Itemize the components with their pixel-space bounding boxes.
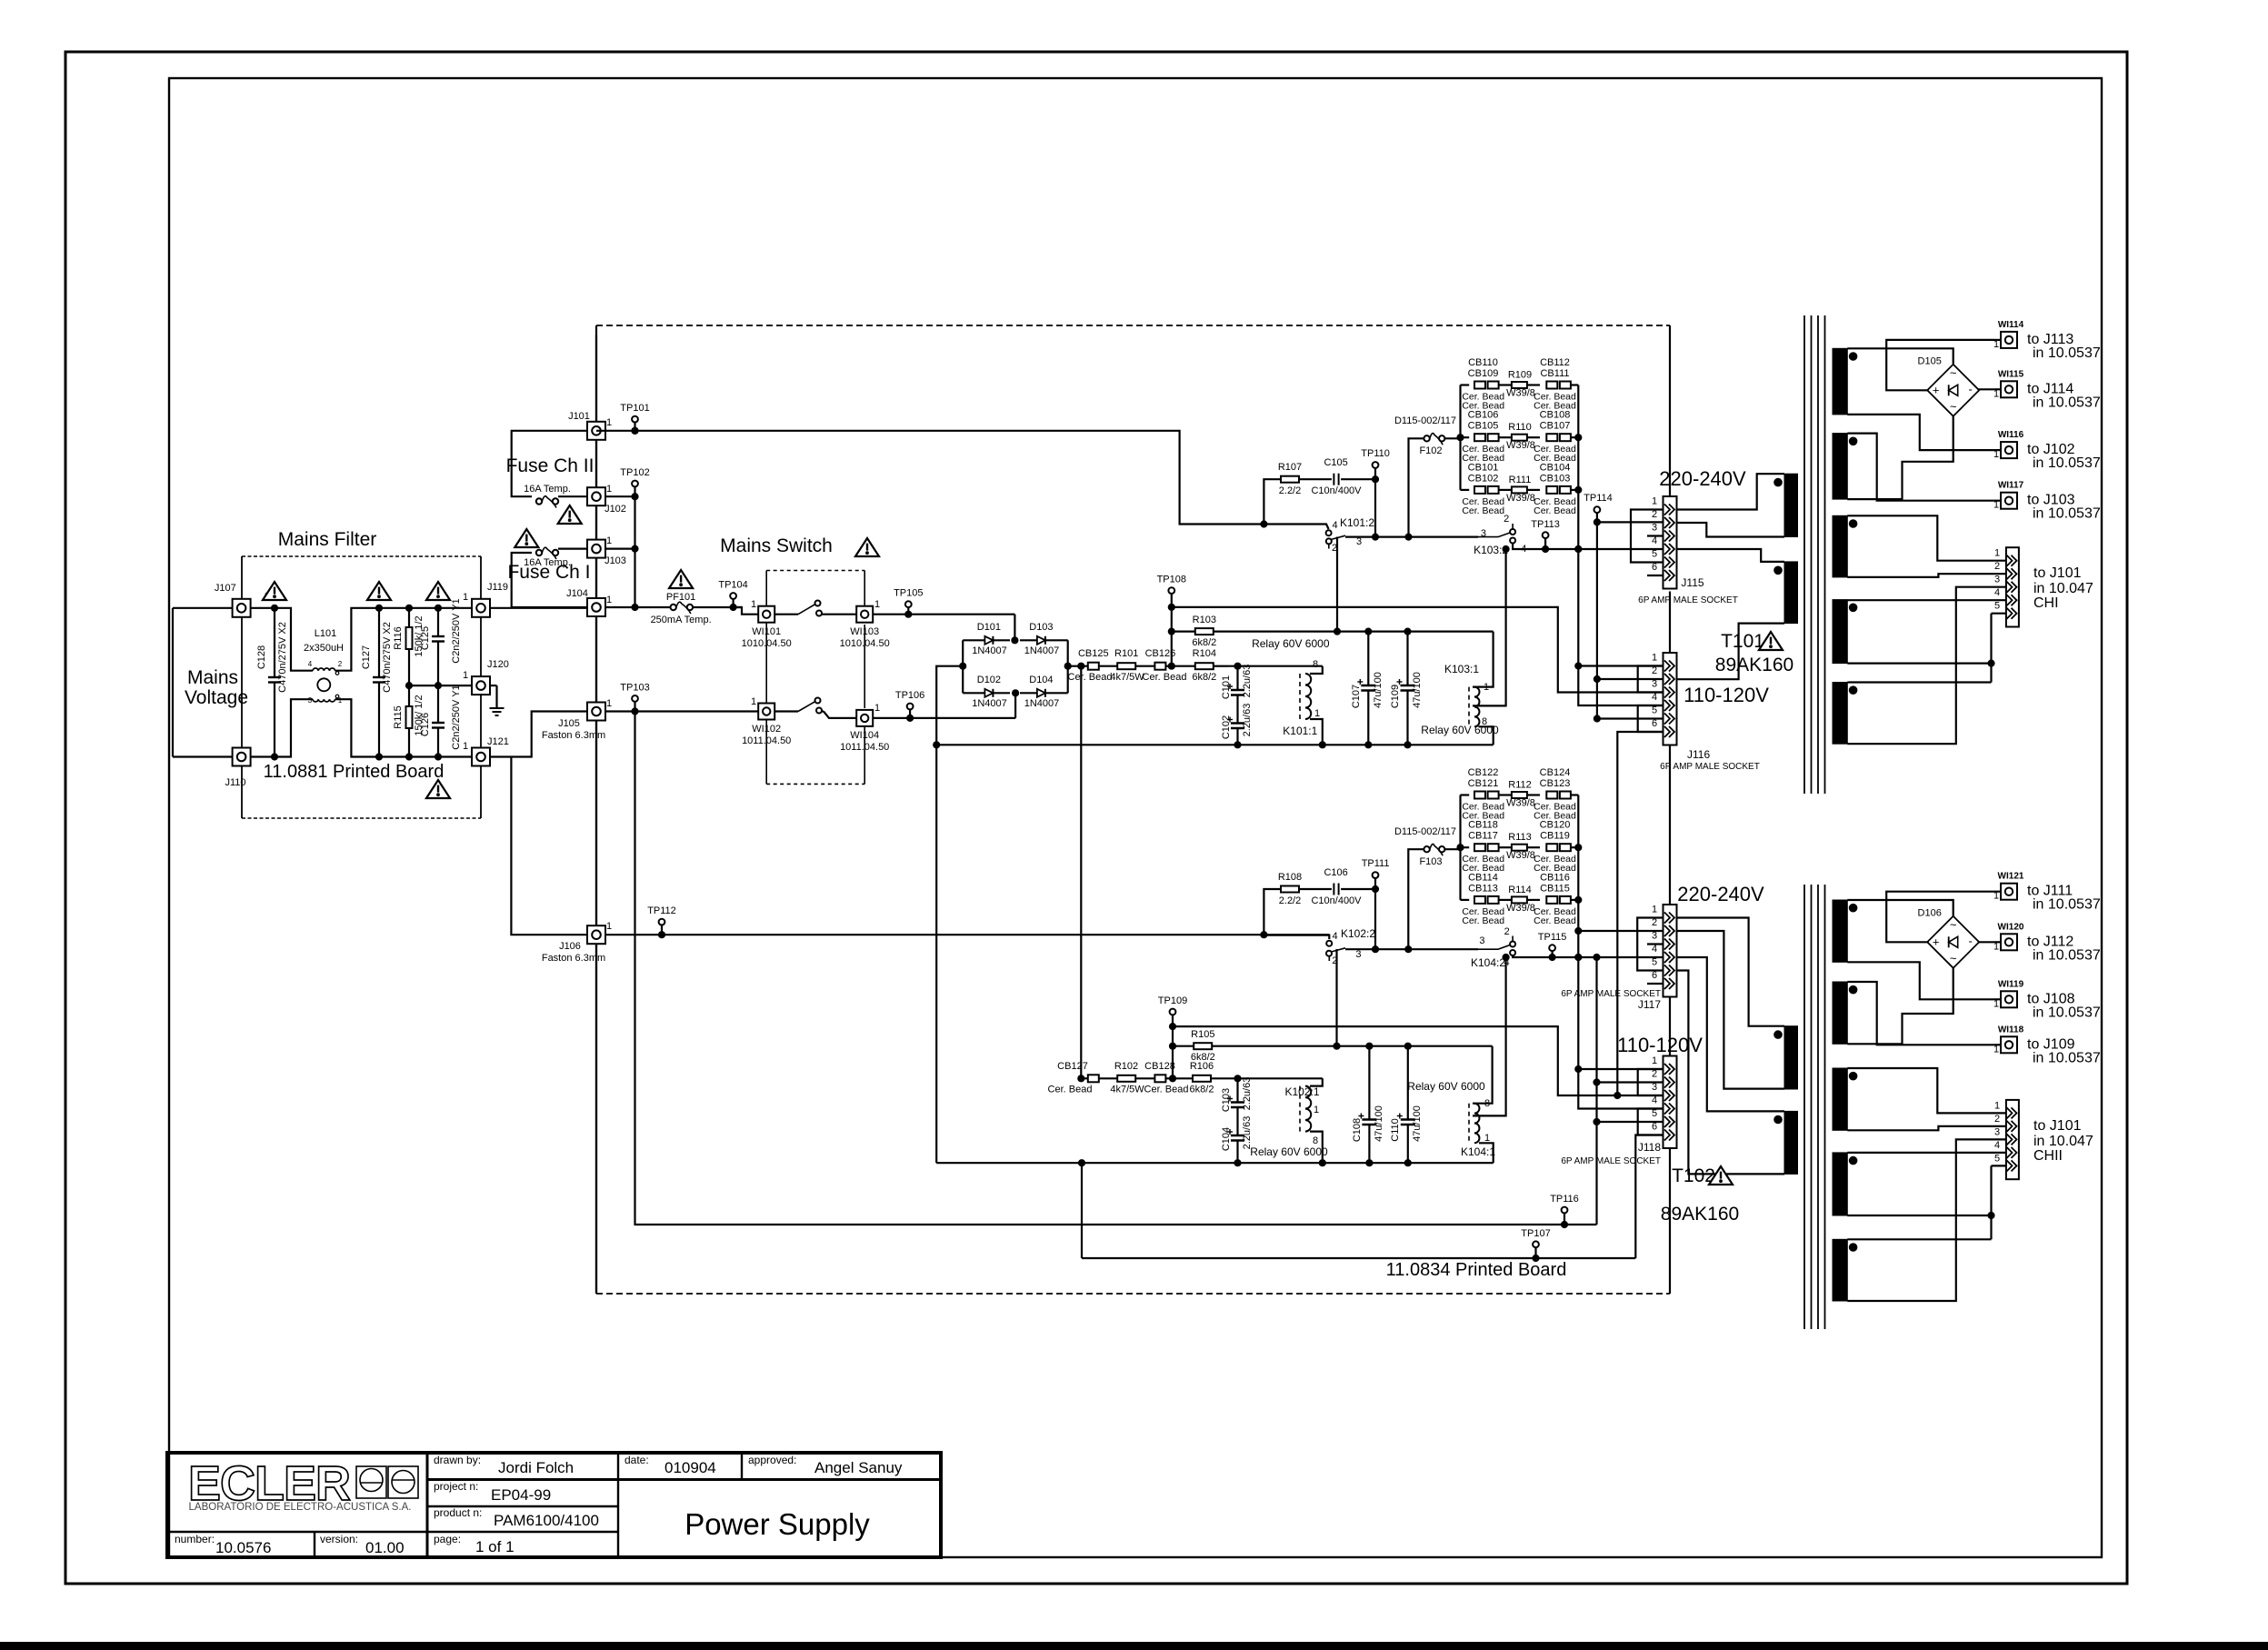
svg-text:11.0834 Printed Board: 11.0834 Printed Board — [1386, 1260, 1567, 1280]
svg-text:WI104: WI104 — [850, 730, 879, 741]
svg-text:W39/8: W39/8 — [1506, 903, 1535, 914]
wire J117 pin6 stub — [1647, 983, 1664, 985]
connector J103 — [587, 540, 605, 558]
svg-text:1: 1 — [1652, 496, 1657, 507]
ferrite bead CB126 — [1154, 663, 1165, 670]
svg-text:CB102: CB102 — [1468, 473, 1499, 484]
svg-text:TP101: TP101 — [620, 403, 649, 414]
warning triangle below C126 — [426, 780, 450, 798]
terminal WI117 — [1994, 500, 2001, 502]
wire S2 top to WI117 — [1847, 434, 1994, 501]
wire channel II input row — [1081, 1077, 1087, 1079]
svg-text:6P AMP MALE SOCKET: 6P AMP MALE SOCKET — [1561, 989, 1661, 999]
svg-text:CB110: CB110 — [1468, 357, 1498, 368]
ferrite beads CB108 CB107 — [1546, 434, 1557, 441]
svg-text:2: 2 — [1504, 926, 1510, 937]
connector J117 6P AMP MALE SOCKET — [1664, 905, 1677, 997]
wire J116 pin6 drop to J118 pin3 — [1617, 732, 1664, 1095]
svg-text:CB125: CB125 — [1078, 648, 1109, 659]
resistor R114 — [1499, 899, 1512, 901]
svg-text:CB118: CB118 — [1468, 820, 1498, 831]
ferrite beads CB102 CB101 — [1461, 489, 1470, 491]
svg-text:Relay 60V 6000: Relay 60V 6000 — [1407, 1080, 1485, 1093]
connector J105 — [587, 703, 605, 721]
wire relay row node X2 — [1228, 1077, 1323, 1079]
svg-text:TP111: TP111 — [1362, 858, 1390, 869]
capacitor C102 — [1231, 722, 1244, 725]
svg-text:F102: F102 — [1419, 445, 1442, 456]
capacitor C107 — [1367, 632, 1369, 685]
wire J101 fuse loop — [512, 431, 587, 496]
svg-text:C105: C105 — [1324, 457, 1347, 468]
wire J116 jumper 1-3 — [1638, 666, 1664, 693]
wire J116 pin1 from CB rail — [1578, 665, 1664, 666]
svg-text:J120: J120 — [487, 659, 509, 670]
connector output CHII — [2006, 1100, 2019, 1179]
svg-text:D106: D106 — [1918, 907, 1942, 918]
svg-text:CB127: CB127 — [1057, 1061, 1088, 1072]
svg-text:Cer. Bead: Cer. Bead — [1462, 915, 1504, 926]
svg-text:R109: R109 — [1508, 370, 1532, 381]
wire D106 minus to WI120 — [1978, 941, 1994, 943]
wire board edge at J117 — [1669, 997, 1671, 1056]
wire D106 AC2 to B2 bottom — [1847, 968, 1953, 1045]
svg-text:110-120V: 110-120V — [1684, 684, 1769, 706]
svg-text:CHI: CHI — [2033, 595, 2059, 611]
svg-text:L101: L101 — [315, 628, 336, 639]
wire bridge left rail — [962, 640, 964, 693]
resistor R104 — [1172, 665, 1194, 667]
svg-text:C109: C109 — [1390, 685, 1401, 708]
svg-text:C470n/275V X2: C470n/275V X2 — [277, 622, 288, 693]
svg-text:CB122: CB122 — [1468, 767, 1499, 778]
resistor R108 — [1281, 886, 1299, 893]
svg-text:89AK160: 89AK160 — [1661, 1204, 1739, 1225]
svg-text:CB105: CB105 — [1468, 421, 1499, 432]
wire WI104 to bridge — [873, 717, 1015, 719]
wire drop to channel II input — [1080, 666, 1082, 1079]
svg-text:6P AMP MALE SOCKET: 6P AMP MALE SOCKET — [1638, 595, 1738, 605]
svg-text:~: ~ — [1950, 399, 1957, 413]
wire J102 junction — [605, 495, 635, 497]
svg-text:4k7/5W: 4k7/5W — [1110, 672, 1144, 683]
wire board edge at J115 — [1669, 325, 1671, 496]
transformer T101 secondary S5 — [1833, 683, 1847, 745]
svg-text:WI101: WI101 — [752, 626, 781, 637]
ferrite beads CB116 CB115 — [1546, 896, 1557, 904]
transformer T102 secondary B5 — [1833, 1239, 1847, 1301]
resistor R110 — [1499, 436, 1512, 438]
wire J118 pin2 — [1597, 1081, 1664, 1083]
svg-text:R111: R111 — [1509, 475, 1532, 485]
wire S4 bottom to CHI pin5 via junction — [1847, 662, 1991, 664]
svg-text:1: 1 — [751, 599, 756, 610]
terminal WI116 — [1994, 449, 2001, 451]
svg-text:2.2u/63: 2.2u/63 — [1242, 1077, 1253, 1111]
svg-text:J107: J107 — [215, 583, 236, 594]
svg-text:CB109: CB109 — [1468, 368, 1499, 379]
relay coil K103:1 — [1468, 687, 1470, 727]
transformer T101 primary 1 bar — [1784, 474, 1798, 536]
svg-text:J105: J105 — [558, 718, 580, 729]
relay contact K102:2 — [1264, 935, 1329, 939]
wire S5 top joins pin5 riser — [1847, 681, 1991, 683]
wire B1 top to D106 AC1 — [1847, 900, 1953, 916]
wire K104:2 pin4 out — [1513, 955, 1664, 957]
svg-text:D104: D104 — [1029, 675, 1053, 685]
svg-text:TP110: TP110 — [1361, 448, 1390, 459]
transformer T101 secondary S4 — [1833, 600, 1847, 664]
warning triangle near J104 fuse — [515, 529, 538, 547]
svg-text:D115-002/117: D115-002/117 — [1394, 826, 1456, 837]
svg-text:1: 1 — [1993, 500, 1999, 511]
svg-text:16A Temp.: 16A Temp. — [524, 484, 571, 495]
resistor R113 — [1499, 846, 1512, 848]
svg-text:in 10.0537: in 10.0537 — [2033, 1005, 2101, 1020]
svg-text:PF101: PF101 — [666, 592, 695, 603]
svg-text:Mains: Mains — [187, 667, 238, 688]
wire J117 pin5 to T102 primary2 bottom — [1677, 971, 1785, 1175]
svg-text:Faston 6.3mm: Faston 6.3mm — [542, 730, 605, 741]
svg-text:1: 1 — [1652, 1055, 1657, 1066]
svg-text:3: 3 — [1652, 1082, 1657, 1093]
svg-text:WI103: WI103 — [850, 626, 879, 637]
wire B4 bottom junction — [1847, 1215, 1991, 1216]
svg-text:TP106: TP106 — [895, 690, 924, 701]
svg-text:number:: number: — [175, 1533, 215, 1545]
svg-text:product n:: product n: — [434, 1506, 482, 1519]
wire K101:2 common to K103:2 — [1345, 535, 1478, 537]
svg-text:D102: D102 — [977, 675, 1001, 685]
svg-text:47u/100: 47u/100 — [1412, 1105, 1423, 1142]
svg-text:10.0576: 10.0576 — [215, 1539, 271, 1556]
svg-text:3: 3 — [308, 696, 313, 705]
svg-text:in 10.0537: in 10.0537 — [2033, 897, 2101, 913]
ferrite beads CB113 CB114 — [1461, 899, 1470, 901]
resistor R111 — [1499, 489, 1512, 491]
wire B1 bottom to WI119 — [1847, 962, 1994, 999]
svg-text:4: 4 — [1652, 1095, 1657, 1106]
svg-text:CB107: CB107 — [1540, 421, 1571, 432]
svg-text:47u/100: 47u/100 — [1373, 672, 1384, 708]
wire TP111 to K102:2 common — [1374, 889, 1376, 949]
svg-text:1N4007: 1N4007 — [972, 698, 1007, 709]
wire J118 pin5 — [1597, 1121, 1664, 1123]
svg-text:in 10.0537: in 10.0537 — [2033, 1050, 2101, 1065]
connector J115 6P AMP MALE SOCKET — [1664, 496, 1677, 589]
wire relay row node X1 — [1228, 665, 1323, 667]
wire J115 pin4 to T101 primary2 top — [1677, 549, 1785, 562]
wire J115 pin2 to T101 primary1 bottom — [1677, 523, 1785, 537]
svg-text:D115-002/117: D115-002/117 — [1394, 415, 1456, 426]
svg-text:Cer. Bead: Cer. Bead — [1048, 1085, 1093, 1095]
wire J115 pin6 stub — [1647, 575, 1664, 576]
terminal WI119 — [1994, 998, 2001, 1000]
svg-text:1011.04.50: 1011.04.50 — [840, 742, 889, 753]
svg-text:CB106: CB106 — [1468, 410, 1499, 421]
svg-text:1: 1 — [606, 535, 612, 546]
svg-text:C2n2/250V Y1: C2n2/250V Y1 — [451, 598, 462, 663]
svg-text:1: 1 — [1314, 708, 1320, 719]
svg-text:page:: page: — [434, 1533, 461, 1545]
svg-text:2.2/2: 2.2/2 — [1279, 485, 1301, 496]
svg-text:D101: D101 — [977, 622, 1001, 633]
svg-text:4: 4 — [1994, 587, 2000, 598]
svg-text:W39/8: W39/8 — [1506, 798, 1535, 809]
svg-text:2.2/2: 2.2/2 — [1279, 895, 1301, 906]
resistor R106 — [1165, 1077, 1171, 1079]
wire K102:2 common to K104:2 — [1345, 948, 1478, 950]
svg-text:-: - — [1969, 382, 1973, 395]
svg-text:4k7/5W: 4k7/5W — [1110, 1085, 1144, 1095]
svg-text:1N4007: 1N4007 — [1024, 698, 1060, 709]
svg-text:C106: C106 — [1324, 867, 1347, 878]
wire J104 to PF101 — [605, 606, 671, 608]
svg-text:1: 1 — [1652, 905, 1657, 915]
svg-text:date:: date: — [624, 1454, 649, 1466]
wire J106 bus to K102:2 — [605, 934, 1264, 935]
svg-text:4: 4 — [1994, 1140, 2000, 1151]
svg-text:3: 3 — [1479, 935, 1484, 946]
warning triangle near J102 — [558, 505, 582, 524]
resistor R109 — [1499, 384, 1512, 385]
svg-text:2.2u/63: 2.2u/63 — [1242, 665, 1253, 698]
svg-text:1: 1 — [463, 741, 468, 752]
svg-text:1: 1 — [463, 670, 468, 681]
svg-text:F103: F103 — [1419, 856, 1442, 867]
ferrite bead CB127 — [1088, 1075, 1099, 1082]
connector J106 — [587, 925, 605, 944]
svg-text:CB114: CB114 — [1468, 872, 1498, 883]
svg-text:K102:1: K102:1 — [1284, 1085, 1319, 1098]
svg-text:4: 4 — [1652, 692, 1657, 703]
diode D102 — [963, 692, 984, 694]
switch blade WI101-WI103 — [774, 614, 798, 615]
transformer T102 primary 2 bar — [1784, 1111, 1798, 1174]
connector output CHI — [2006, 547, 2019, 626]
ferrite bead CB125 — [1088, 663, 1099, 670]
capacitor C108 — [1368, 1046, 1370, 1120]
svg-text:4: 4 — [1333, 931, 1338, 942]
svg-text:WI119: WI119 — [1998, 979, 2024, 989]
ferrite beads CB121 CB122 — [1461, 794, 1470, 795]
transformer T101 secondary S3 — [1833, 515, 1847, 577]
svg-text:1: 1 — [606, 698, 612, 709]
svg-text:1: 1 — [1484, 1133, 1490, 1144]
svg-text:6k8/2: 6k8/2 — [1192, 672, 1216, 683]
wire bridge right rail — [1067, 640, 1069, 693]
resistor R102 — [1099, 1077, 1117, 1079]
svg-text:TP109: TP109 — [1158, 995, 1187, 1006]
wire S1 bottom to WI116 — [1847, 415, 1994, 450]
wire TP107 left riser — [1081, 1163, 1083, 1258]
svg-text:5: 5 — [1652, 549, 1657, 560]
svg-text:1: 1 — [606, 417, 612, 428]
capacitor C125 — [437, 608, 439, 636]
wire K101:2 blade drop to R103 line — [1336, 537, 1338, 632]
wire B3 bottom to CHII pin2 — [1847, 1126, 2006, 1130]
relay coil K101:1 — [1310, 666, 1323, 674]
wire R107 branch — [1264, 479, 1281, 524]
svg-text:TP114: TP114 — [1584, 493, 1613, 504]
svg-text:in 10.047: in 10.047 — [2033, 1134, 2093, 1149]
ferrite bead array rail left — [1459, 795, 1461, 900]
svg-text:1010.04.50: 1010.04.50 — [742, 638, 792, 649]
wire J116 jumper 4-6 — [1638, 705, 1664, 732]
wire D105 plus to WI114 — [1886, 340, 1994, 390]
relay coil K104:1 — [1468, 1104, 1470, 1144]
diode D104 — [1020, 692, 1036, 694]
svg-text:C128: C128 — [256, 645, 267, 669]
capacitor C110 — [1407, 1046, 1409, 1120]
svg-text:4: 4 — [1652, 535, 1657, 546]
svg-text:CB112: CB112 — [1540, 357, 1570, 368]
wire vertical bus J101-J105 — [595, 335, 597, 422]
svg-text:6k8/2: 6k8/2 — [1192, 637, 1216, 648]
svg-text:Angel Sanuy: Angel Sanuy — [814, 1459, 903, 1476]
svg-text:CB108: CB108 — [1540, 410, 1571, 421]
ferrite beads CB120 CB119 — [1546, 844, 1557, 851]
wire filter mid tap — [409, 685, 472, 686]
svg-text:TP108: TP108 — [1157, 575, 1186, 585]
terminal WI103 — [856, 606, 873, 623]
svg-text:5: 5 — [1994, 601, 2000, 612]
svg-text:3: 3 — [1994, 1126, 2000, 1137]
svg-text:TP116: TP116 — [1550, 1194, 1579, 1205]
capacitor C128 — [274, 608, 275, 677]
warning triangle above C125 — [426, 582, 450, 600]
ferrite bead array rail right — [1577, 795, 1579, 900]
svg-text:5: 5 — [1652, 1108, 1657, 1119]
svg-text:8: 8 — [1313, 659, 1318, 670]
wire PF101 to WI101 — [693, 606, 742, 608]
wire J117 pin3 stub — [1647, 943, 1664, 945]
wire B2 top to WI118 — [1847, 982, 1994, 1045]
wire D105 minus to WI115 — [1978, 388, 1994, 390]
capacitor C109 — [1406, 632, 1408, 685]
svg-text:1: 1 — [1993, 1044, 1999, 1055]
svg-text:J118: J118 — [1638, 1141, 1661, 1154]
warning triangle PF101 — [669, 570, 693, 588]
svg-text:2x350uH: 2x350uH — [304, 643, 344, 654]
wire TP102 to J104 — [634, 496, 635, 607]
svg-text:R114: R114 — [1508, 885, 1531, 895]
svg-text:CB103: CB103 — [1540, 473, 1571, 484]
transformer T101 primary 2 bar — [1784, 562, 1798, 624]
svg-text:Cer. Bead: Cer. Bead — [1462, 505, 1504, 516]
svg-text:Cer. Bead: Cer. Bead — [1534, 915, 1576, 926]
svg-text:4: 4 — [1652, 944, 1657, 955]
svg-text:~: ~ — [1950, 365, 1957, 379]
wire bridge minus drop to channel II rail — [935, 745, 937, 1163]
svg-text:WI116: WI116 — [1998, 430, 2024, 440]
svg-text:CB119: CB119 — [1540, 831, 1570, 842]
svg-text:J102: J102 — [604, 504, 626, 515]
capacitor C103 — [1236, 1078, 1238, 1102]
svg-text:C470n/275V X2: C470n/275V X2 — [382, 622, 393, 693]
wire F103 riser — [1408, 849, 1424, 949]
svg-text:K104:2: K104:2 — [1471, 956, 1505, 969]
svg-text:WI102: WI102 — [752, 724, 781, 735]
svg-text:1: 1 — [1993, 388, 1999, 399]
svg-text:-: - — [1969, 934, 1973, 947]
svg-text:R104: R104 — [1193, 648, 1216, 659]
svg-text:11.0881 Printed Board: 11.0881 Printed Board — [264, 762, 445, 782]
svg-text:CB128: CB128 — [1144, 1061, 1175, 1072]
svg-text:R101: R101 — [1114, 648, 1138, 659]
svg-text:K102:2: K102:2 — [1341, 927, 1375, 940]
svg-text:C10n/400V: C10n/400V — [1311, 485, 1362, 496]
wire CB rail down to J116 — [1578, 491, 1664, 705]
title block frame — [167, 1453, 941, 1557]
svg-text:approved:: approved: — [748, 1454, 796, 1466]
wire J116 pin2 from TP114 rail — [1597, 678, 1664, 680]
wire J119 to J104 — [490, 607, 587, 609]
svg-text:2.2u/63: 2.2u/63 — [1242, 704, 1253, 737]
wire J115 pin jumper 1-5 — [1631, 510, 1664, 563]
svg-text:J106: J106 — [559, 941, 581, 952]
svg-text:CB113: CB113 — [1468, 883, 1498, 894]
wire B5 top joins pin5 riser — [1847, 1238, 1991, 1240]
svg-text:C103: C103 — [1221, 1088, 1232, 1112]
svg-text:010904: 010904 — [664, 1459, 716, 1476]
svg-text:47u/100: 47u/100 — [1374, 1105, 1384, 1142]
svg-text:TP105: TP105 — [894, 588, 923, 599]
wire TP114 rail down — [1596, 522, 1598, 718]
wire mains voltage bracket — [173, 607, 233, 609]
svg-text:Cer. Bead: Cer. Bead — [1068, 672, 1113, 683]
svg-text:1: 1 — [1993, 449, 1999, 460]
svg-text:6k8/2: 6k8/2 — [1190, 1085, 1214, 1095]
warning triangle mains switch — [855, 538, 879, 556]
bottom scan bar — [0, 1642, 2268, 1650]
svg-text:J117: J117 — [1638, 998, 1661, 1011]
ferrite beads CB112 CB111 — [1546, 382, 1557, 389]
svg-text:TP115: TP115 — [1538, 932, 1567, 943]
wire D105 AC2 to S2 bottom — [1847, 415, 1953, 499]
svg-text:W39/8: W39/8 — [1506, 493, 1535, 504]
svg-text:1: 1 — [874, 599, 880, 610]
terminal WI102 — [758, 704, 774, 720]
svg-text:K101:1: K101:1 — [1283, 725, 1317, 737]
svg-text:1: 1 — [1993, 998, 1999, 1009]
svg-text:C2n2/250V Y1: C2n2/250V Y1 — [451, 685, 462, 749]
svg-text:R112: R112 — [1508, 780, 1531, 791]
svg-text:CB101: CB101 — [1468, 462, 1499, 473]
svg-text:W39/8: W39/8 — [1506, 440, 1535, 451]
svg-text:CHII: CHII — [2033, 1148, 2063, 1164]
svg-text:1: 1 — [606, 484, 612, 495]
mains filter board box 11.0881 — [242, 555, 481, 557]
svg-text:Relay 60V 6000: Relay 60V 6000 — [1250, 1145, 1328, 1158]
wire 0V rail channel II — [936, 1162, 1494, 1164]
svg-text:1: 1 — [1994, 548, 2000, 559]
wire J118 pin6 drop to TP107 bus — [1635, 1135, 1664, 1259]
capacitor C104 — [1231, 1135, 1244, 1137]
svg-text:TP112: TP112 — [647, 905, 676, 916]
wire J105 TP103 to WI102 — [605, 710, 758, 712]
svg-text:2: 2 — [338, 660, 343, 668]
svg-text:R106: R106 — [1190, 1061, 1214, 1072]
svg-text:1: 1 — [1994, 1100, 2000, 1111]
svg-text:R108: R108 — [1278, 872, 1302, 883]
ferrite beads CB105 CB106 — [1461, 436, 1470, 438]
capacitor C106 — [1299, 888, 1332, 890]
wire TP108 vertical — [1171, 607, 1173, 666]
svg-text:R105: R105 — [1191, 1029, 1214, 1040]
resistor R107 — [1281, 476, 1299, 483]
svg-text:drawn by:: drawn by: — [434, 1454, 481, 1466]
